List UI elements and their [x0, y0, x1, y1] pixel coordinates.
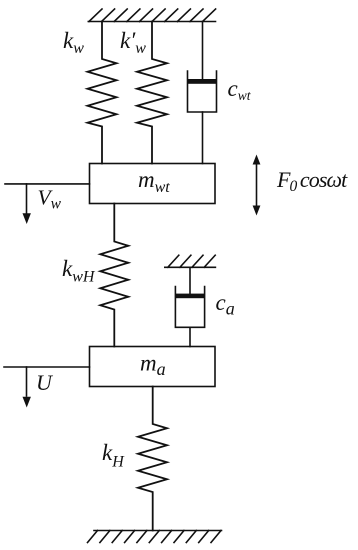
- damper c_a: [175, 267, 204, 346]
- arrow V_w: [23, 184, 31, 224]
- mass m_a: [90, 347, 216, 387]
- svg-text:ma: ma: [140, 351, 166, 380]
- reference line V_w: [5, 183, 90, 185]
- svg-text:ca: ca: [216, 290, 235, 319]
- svg-text:kw: kw: [63, 28, 84, 57]
- ceiling ground (top): [88, 9, 215, 22]
- spring k_wH: [100, 204, 128, 347]
- svg-text:cwt: cwt: [228, 76, 252, 103]
- svg-text:mwt: mwt: [138, 167, 170, 196]
- reference line U: [4, 366, 90, 368]
- svg-text:kwH: kwH: [62, 256, 96, 286]
- damper c_wt: [188, 22, 217, 164]
- ground (bottom): [88, 531, 222, 543]
- spring k_w: [88, 22, 117, 164]
- spring k_H: [138, 387, 167, 531]
- spring k'_w: [137, 22, 167, 164]
- ceiling ground (for damper c_a): [165, 255, 216, 267]
- svg-text:kH: kH: [102, 440, 125, 471]
- svg-text:k′w: k′w: [120, 28, 146, 57]
- arrow U: [23, 367, 31, 408]
- mass m_wt: [90, 164, 216, 204]
- arrow F0_coswt (double-headed): [253, 155, 261, 216]
- svg-text:F0cosωt: F0cosωt: [276, 167, 348, 195]
- svg-text:U: U: [36, 370, 54, 395]
- svg-text:Vw: Vw: [38, 186, 62, 213]
